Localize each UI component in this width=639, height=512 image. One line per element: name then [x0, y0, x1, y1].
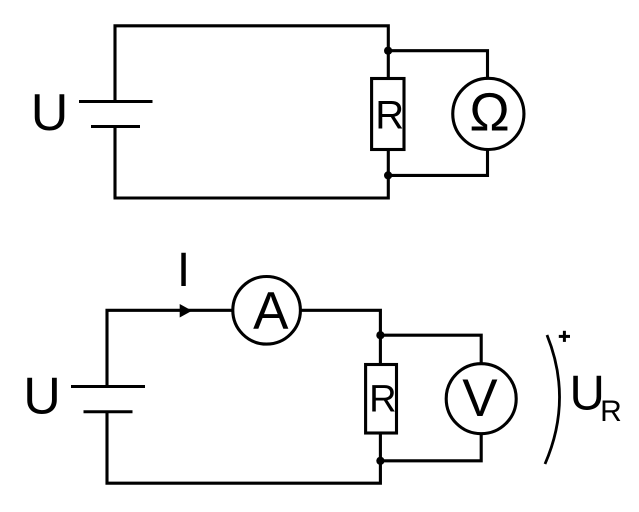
- svg-text:R: R: [369, 378, 396, 420]
- wire: bottom circuit left side upper + top side to ammeter: [107, 310, 232, 385]
- resistor R (bottom circuit): [366, 365, 397, 434]
- wire: voltmeter branch upper: [380, 335, 481, 363]
- current arrow I: [180, 304, 192, 318]
- wire: ohmmeter branch lower: [388, 150, 487, 175]
- wire: junction to resistor (bottom circuit): [379, 335, 382, 364]
- voltmeter circle: [446, 364, 516, 434]
- battery U (bottom circuit) long plate: [71, 385, 145, 388]
- ohmmeter circle: [453, 78, 524, 149]
- wire: voltmeter branch lower: [380, 435, 481, 461]
- wire: ohmmeter branch upper: [388, 51, 487, 78]
- svg-text:R: R: [375, 94, 404, 138]
- battery U (top circuit) long plate: [79, 100, 153, 103]
- wire: bottom circuit left side lower + bottom side + right side lower: [107, 413, 380, 483]
- junction dot bottom circuit lower: [376, 457, 384, 465]
- wire: resistor to bottom junction (bottom circuit): [379, 434, 382, 461]
- svg-text:A: A: [253, 282, 289, 341]
- resistor R (top circuit): [372, 79, 404, 150]
- wire: top circuit left side upper + top side + right side upper: [115, 26, 388, 101]
- svg-text:I: I: [177, 244, 190, 297]
- junction dot top circuit lower: [384, 171, 392, 179]
- ammeter circle: [233, 277, 301, 345]
- wire: ammeter to right corner + down to junction: [302, 310, 381, 335]
- junction dot bottom circuit upper: [376, 331, 384, 339]
- arc bracket for UR: [545, 335, 560, 464]
- plus sign: [559, 331, 570, 342]
- junction dot top circuit upper: [384, 47, 392, 55]
- svg-text:U: U: [31, 84, 69, 142]
- wire: top circuit bottom side + right side lower: [114, 151, 389, 198]
- wire: top circuit left side lower segment: [113, 127, 116, 198]
- battery U (bottom circuit) short plate: [84, 410, 133, 413]
- svg-text:Ω: Ω: [469, 83, 509, 143]
- svg-text:V: V: [462, 369, 498, 428]
- svg-text:UR: UR: [570, 366, 622, 428]
- battery U (top circuit) short plate: [91, 125, 140, 128]
- svg-text:U: U: [23, 368, 61, 426]
